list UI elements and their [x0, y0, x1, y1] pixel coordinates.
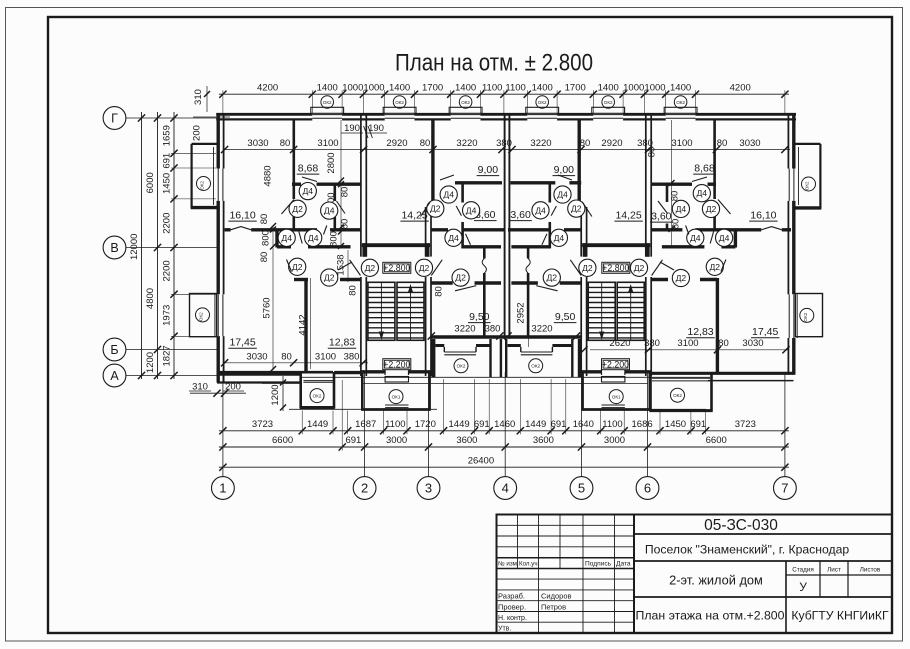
dim 1538 (apt A hall width) [336, 250, 349, 282]
title block outer frame [497, 515, 893, 634]
stairwell 1 right double wall [426, 207, 431, 376]
top dimension chain line [219, 93, 789, 95]
svg-text:80: 80 [259, 214, 270, 225]
svg-text:12,83: 12,83 [687, 326, 713, 338]
svg-text:Д2: Д2 [546, 273, 557, 283]
svg-text:Петров: Петров [541, 602, 566, 611]
window mark ОК2 bottom left-middle [454, 359, 468, 373]
svg-text:Провер.: Провер. [498, 602, 526, 611]
room area 9,00 (apt C) [553, 164, 576, 176]
svg-text:В: В [110, 241, 118, 255]
apt D closet wall [734, 231, 737, 248]
svg-text:+2.800: +2.800 [602, 263, 629, 273]
svg-text:2: 2 [361, 481, 368, 496]
apt B wall H2 [431, 228, 504, 231]
window in top wall (ОК2) [592, 107, 625, 118]
apt B room 9,50 east wall with opening [482, 248, 486, 339]
svg-text:1000: 1000 [342, 83, 363, 94]
window mark ОК2 (top wall) [536, 96, 549, 109]
svg-text:2920: 2920 [386, 138, 407, 149]
stair flight arrows [599, 283, 633, 341]
svg-text:1100: 1100 [505, 83, 525, 94]
lower-right balcony box [795, 294, 822, 337]
elevation box +2.200 stair2 [602, 359, 630, 370]
svg-text:26400: 26400 [468, 455, 494, 466]
apt C wall H2 [508, 228, 581, 231]
porch depth dim 1200 [270, 376, 286, 411]
svg-text:3220: 3220 [454, 324, 475, 335]
svg-text:12000: 12000 [129, 234, 140, 260]
room area 3,60 (apt D) [650, 211, 673, 223]
title block small labels [498, 561, 631, 633]
window in top wall (ОК2) [311, 107, 344, 118]
axis circle А [103, 364, 126, 387]
svg-text:3: 3 [425, 481, 432, 496]
svg-text:Листов: Листов [860, 567, 881, 574]
window in right wall upper (to bay) [789, 169, 794, 201]
door Д2 [536, 269, 560, 291]
stairwell 2 left double wall [581, 207, 586, 376]
svg-text:Д4: Д4 [690, 233, 701, 243]
svg-text:Д4: Д4 [281, 233, 292, 243]
svg-text:У: У [799, 580, 807, 594]
svg-text:2-эт. жилой дом: 2-эт. жилой дом [669, 573, 763, 588]
window mark ОК2 (top wall) [602, 96, 615, 109]
window mark ОК2 (top wall) [459, 96, 472, 109]
top-left bay [191, 144, 218, 209]
window mark ОК2 in top-right bay [802, 177, 816, 191]
svg-text:1720: 1720 [415, 419, 436, 430]
axis circle 5 [570, 477, 593, 500]
svg-text:Стадия: Стадия [792, 567, 813, 574]
apt C wall H4 (top of 9,50) [511, 281, 581, 284]
elevation box +2.800 stair2 [602, 262, 630, 273]
door Д2 [660, 262, 690, 287]
ground line below porches [262, 377, 710, 409]
door Д4 [532, 202, 557, 219]
svg-text:4142: 4142 [298, 314, 309, 335]
axis circle 2 [353, 477, 376, 500]
svg-text:9,50: 9,50 [555, 311, 576, 323]
svg-text:Д4: Д4 [696, 188, 707, 198]
svg-text:Д2: Д2 [292, 262, 303, 272]
window in top wall (ОК2) [526, 107, 559, 118]
left dimension chain column 1 line [173, 112, 175, 379]
window mark ОК1 stair porch [609, 390, 623, 404]
svg-text:3,60: 3,60 [651, 211, 672, 223]
window mark ОК2 left wall lower [196, 308, 210, 322]
window in top wall (ОК2) [664, 107, 697, 118]
axis circle 7 [774, 477, 797, 500]
misc 80 labels [348, 147, 682, 297]
sheet title cell [636, 609, 785, 623]
door Д4 [305, 226, 327, 247]
door Д2 [570, 259, 596, 276]
svg-text:ОК2: ОК2 [676, 100, 685, 105]
svg-text:ОК2: ОК2 [200, 180, 205, 189]
svg-text:3000: 3000 [386, 435, 407, 446]
door Д2 [415, 259, 442, 276]
window mark ОК1 stair porch [389, 390, 403, 404]
svg-text:ОК2: ОК2 [538, 100, 547, 105]
svg-text:05-ЗС-030: 05-ЗС-030 [704, 517, 778, 534]
svg-text:200: 200 [192, 125, 203, 141]
left chain col1 labels [162, 125, 173, 366]
svg-text:1973: 1973 [162, 305, 173, 326]
stage/sheet columns [786, 561, 892, 633]
svg-text:1400: 1400 [670, 83, 691, 94]
svg-text:80: 80 [718, 338, 729, 349]
svg-text:Дата: Дата [616, 561, 631, 568]
bottom dimension chain row 1 line [219, 430, 789, 432]
svg-text:1000: 1000 [623, 83, 644, 94]
apt D partition V2 (bath) [666, 185, 669, 229]
svg-text:Д2: Д2 [365, 263, 376, 273]
apt A wall H1 under room 8,68 [292, 182, 361, 185]
svg-text:3030: 3030 [246, 351, 267, 362]
svg-text:6600: 6600 [272, 435, 293, 446]
apt C wall H1 under room 9,00 [510, 181, 581, 184]
svg-text:Д4: Д4 [324, 206, 335, 216]
window mark ОК2 in top-left bay [197, 177, 211, 191]
svg-text:5: 5 [578, 481, 585, 496]
svg-text:380: 380 [344, 351, 360, 362]
stairwell 1 left double wall (190+190) [361, 114, 366, 377]
apt C partition V2 (bath 3,60) [548, 183, 551, 248]
apt A closet wall [275, 231, 278, 248]
svg-text:1640: 1640 [573, 419, 594, 430]
apt D wall H2 [651, 227, 791, 230]
svg-text:3220: 3220 [531, 324, 552, 335]
svg-text:3100: 3100 [677, 338, 698, 349]
svg-text:3030: 3030 [247, 138, 268, 149]
room area 9,50 (apt C) [554, 311, 577, 323]
svg-text:691: 691 [162, 153, 173, 169]
apt A partition V2 (bath) [333, 185, 336, 229]
svg-text:1: 1 [219, 481, 226, 496]
svg-text:ОК1: ОК1 [612, 394, 621, 399]
top dimension labels [257, 83, 751, 94]
svg-text:Утв.: Утв. [498, 626, 511, 633]
building type cell [669, 573, 763, 588]
apt A wall H2 (hall south wall) [225, 227, 361, 230]
door Д2 [350, 259, 379, 276]
window sill lines (left 9,50 room window) [444, 347, 476, 355]
window in left wall lower ОК2 [215, 294, 223, 336]
right entrance porch with window ОК2 [650, 373, 713, 412]
svg-text:80: 80 [434, 286, 445, 297]
svg-text:1100: 1100 [602, 419, 622, 430]
door Д2 [282, 200, 307, 218]
svg-text:А: А [110, 369, 119, 383]
svg-text:1450: 1450 [665, 419, 686, 430]
svg-text:800: 800 [329, 231, 340, 247]
axis circle 6 [636, 477, 659, 500]
dim 2952 (apt C 9,50 height) [516, 280, 529, 347]
door Д2 [452, 269, 476, 291]
room area 17,45 (apt A) [228, 337, 256, 349]
svg-text:Д4: Д4 [557, 190, 568, 200]
left entrance porch with window ОК2 [300, 372, 335, 409]
svg-text:12,83: 12,83 [329, 337, 355, 349]
svg-text:+2.200: +2.200 [383, 359, 410, 369]
svg-text:1700: 1700 [422, 83, 443, 94]
dim 190 190 labels at stair1 wall [341, 123, 387, 138]
svg-text:Д4: Д4 [535, 205, 546, 215]
apt B wall H4 (top of 9,50) [431, 281, 501, 284]
svg-text:3220: 3220 [530, 138, 551, 149]
dim 4142 (12,83 room height) [298, 278, 311, 369]
svg-text:ОК2: ОК2 [323, 100, 332, 105]
svg-text:80: 80 [420, 138, 431, 149]
svg-text:9,00: 9,00 [554, 164, 575, 176]
svg-text:Д2: Д2 [571, 204, 582, 214]
bottom wall middle sections (axis Б) [431, 335, 582, 339]
svg-text:Д2: Д2 [582, 263, 593, 273]
room area 9,50 (apt B) [468, 311, 491, 323]
svg-text:9,00: 9,00 [478, 164, 499, 176]
window mark ОК2 left porch [310, 389, 324, 403]
svg-text:ОК2: ОК2 [313, 393, 322, 398]
svg-text:3,60: 3,60 [510, 209, 531, 221]
svg-text:380: 380 [496, 138, 512, 149]
top exterior wall (axis Г) segments between windows [216, 114, 796, 119]
wall between apt C small rooms and room 14,25 (right) [578, 120, 581, 207]
svg-text:Д2: Д2 [324, 273, 335, 283]
svg-text:1200: 1200 [145, 352, 156, 373]
svg-text:80: 80 [280, 138, 291, 149]
svg-text:6: 6 [644, 481, 651, 496]
stairwell top wall (landing north wall) [362, 243, 430, 257]
svg-text:1450: 1450 [162, 173, 173, 194]
svg-text:3100: 3100 [317, 138, 338, 149]
stair entrance porch [581, 374, 651, 410]
svg-text:1449: 1449 [307, 419, 328, 430]
stairwell top wall (landing north wall) [582, 243, 650, 257]
svg-text:5760: 5760 [262, 297, 273, 318]
apt A wall H4 (top of 12,83) [294, 278, 361, 281]
left exterior wall (axis 1) [218, 113, 223, 382]
left chain col1 ticks + extensions [170, 114, 216, 379]
axis circle В [103, 236, 126, 259]
svg-text:1687: 1687 [355, 419, 376, 430]
svg-text:2200: 2200 [162, 260, 173, 281]
svg-text:3600: 3600 [533, 435, 554, 446]
svg-text:80: 80 [671, 219, 682, 230]
svg-text:3600: 3600 [456, 435, 477, 446]
door Д2 [421, 200, 444, 217]
elevation box +2.800 stair1 [383, 262, 411, 273]
room area 14,25 (apt C) [614, 210, 642, 222]
svg-text:6600: 6600 [706, 435, 727, 446]
svg-text:Д4: Д4 [676, 204, 687, 214]
small dim 310 at top left [193, 86, 210, 112]
svg-text:691: 691 [690, 419, 706, 430]
project name line [645, 542, 850, 556]
bottom wall right end block [650, 373, 794, 380]
apt A wall H5 [277, 245, 351, 248]
title block divider main vertical [633, 515, 635, 634]
svg-text:80: 80 [670, 191, 681, 202]
apt C wall H5 [511, 245, 550, 248]
svg-text:800: 800 [261, 230, 272, 246]
svg-text:Б: Б [110, 343, 118, 357]
svg-text:ОК2: ОК2 [805, 181, 810, 190]
vertical axis lines 1-7 [223, 372, 785, 477]
svg-text:16,10: 16,10 [229, 210, 255, 222]
svg-text:Д2: Д2 [419, 263, 430, 273]
svg-text:80: 80 [340, 187, 351, 198]
axis circle Г [103, 107, 126, 130]
svg-text:17,45: 17,45 [752, 326, 778, 338]
svg-text:Д2: Д2 [430, 204, 441, 214]
left dimension 12000 [129, 112, 145, 379]
left chain col2 labels [145, 172, 156, 373]
apt B wall H1 under room 9,00 [455, 181, 502, 184]
door Д4 [278, 229, 302, 246]
stair left flight box and treads [588, 282, 615, 340]
svg-text:ОК2: ОК2 [673, 393, 682, 398]
middle facade piers below wall [433, 339, 579, 377]
apt D partition P1 between 8,68 and 16,10 [713, 119, 716, 231]
svg-text:Д2: Д2 [455, 273, 466, 283]
svg-text:План этажа на отм.+2.800: План этажа на отм.+2.800 [636, 609, 785, 623]
svg-text:Д4: Д4 [466, 205, 477, 215]
dims 2800/2000/800 chain (apt A hall) [326, 120, 351, 249]
svg-text:Д4: Д4 [302, 186, 313, 196]
room area 9,00 (apt B) [477, 164, 500, 176]
svg-text:4880: 4880 [263, 165, 274, 186]
door Д2 [706, 258, 726, 275]
door Д4 [321, 201, 345, 219]
window in right wall lower ОК2 [789, 294, 797, 338]
svg-text:1538: 1538 [336, 254, 347, 275]
svg-text:1400: 1400 [532, 83, 553, 94]
dim chain 80/800/5760 (apt A left) [259, 214, 276, 372]
svg-text:№ изм.: № изм. [498, 561, 519, 568]
window mark ОК2 right wall lower [800, 308, 814, 322]
stair bottom landing wall + entrance opening [360, 369, 431, 376]
lower-left balcony box [190, 294, 217, 337]
svg-text:2200: 2200 [162, 213, 173, 234]
window in top wall (ОК2) [383, 107, 416, 118]
title: plan heading [395, 50, 593, 77]
svg-text:380: 380 [485, 324, 501, 335]
svg-text:Д4: Д4 [719, 233, 730, 243]
stair bottom landing wall + entrance opening [581, 369, 652, 376]
stair right flight box and treads [617, 282, 644, 340]
svg-text:80: 80 [717, 138, 728, 149]
room area 3,60 (apt B) [474, 209, 497, 221]
room area 12,83 (apt D) [686, 326, 714, 338]
apt A partition P1 between 16,10 and 8,68 [292, 119, 295, 231]
svg-text:3030: 3030 [739, 138, 760, 149]
svg-text:План на отм. ± 2.800: План на отм. ± 2.800 [395, 50, 593, 77]
stair entrance porch [361, 374, 431, 410]
window mark ОК2 bottom right-middle [529, 359, 543, 373]
svg-text:1449: 1449 [525, 419, 546, 430]
axis circle 1 [212, 477, 235, 500]
apt D wall H4 (top of 12,83) [651, 278, 717, 281]
svg-text:1400: 1400 [598, 83, 619, 94]
svg-text:ОК2: ОК2 [199, 312, 204, 321]
doc number 05-ЗС-030 [704, 517, 778, 534]
door Д2 [321, 262, 352, 286]
svg-text:ОК2: ОК2 [395, 100, 404, 105]
bottom dimension 26400 line [219, 455, 789, 470]
window mark ОК2 (top wall) [674, 96, 687, 109]
svg-text:1400: 1400 [389, 83, 410, 94]
door Д2 [630, 259, 662, 276]
svg-text:3100: 3100 [315, 351, 336, 362]
svg-text:ОК2: ОК2 [604, 100, 613, 105]
bottom dimension chain row 2 line [219, 446, 789, 448]
room area 16,10 (apt D) [749, 210, 777, 222]
svg-text:80: 80 [647, 147, 658, 158]
room area 14,25 (apt B) [400, 210, 428, 222]
door Д4 [299, 177, 317, 200]
svg-text:Д2: Д2 [292, 204, 303, 214]
interior dim row under top wall (3030/80/3100 | 2920/80/3220 | ...) [221, 138, 790, 153]
door Д4 [710, 229, 733, 246]
top-right bay [795, 144, 821, 209]
svg-text:691: 691 [474, 419, 490, 430]
door Д4 [658, 200, 690, 217]
room area 3,60 (apt C) [509, 209, 532, 221]
svg-text:6000: 6000 [145, 172, 156, 193]
svg-text:3723: 3723 [735, 419, 756, 430]
bottom chain row2 labels [272, 435, 727, 446]
door Д4 [554, 175, 572, 203]
window mark ОК2 right porch [671, 388, 685, 402]
svg-text:1100: 1100 [482, 83, 502, 94]
svg-text:3030: 3030 [742, 338, 763, 349]
svg-text:1700: 1700 [565, 83, 586, 94]
door Д4 [686, 226, 704, 247]
svg-text:Д2: Д2 [634, 263, 645, 273]
door Д2 [568, 200, 592, 217]
svg-text:ОК2: ОК2 [457, 364, 466, 369]
svg-text:4800: 4800 [145, 288, 156, 309]
apt D wall P2 (12,83 | 17,45) [716, 278, 719, 374]
apt D hall dim line [669, 120, 675, 246]
window sill lines (right 9,50 room window) [521, 347, 553, 355]
mid-bottom dim row center (3220 380 | 3220) [428, 324, 581, 340]
svg-text:2952: 2952 [516, 302, 527, 323]
svg-text:2620: 2620 [609, 338, 630, 349]
axis circle 3 [417, 477, 440, 500]
svg-text:Лист: Лист [827, 567, 841, 574]
svg-text:Д4: Д4 [308, 233, 319, 243]
door Д2 [702, 200, 730, 218]
bottom wall left end block (17,45 / 12,83 rooms) [217, 373, 361, 383]
svg-text:1449: 1449 [449, 419, 470, 430]
center party wall (380) between axis-4 sections [505, 114, 510, 339]
svg-text:80: 80 [580, 138, 591, 149]
mid-bottom dim row left (3030 80 3100 380) [221, 351, 368, 366]
room area 8,68 (apt A) [297, 163, 320, 175]
bottom chain row1 labels [252, 419, 756, 430]
axis circle 4 [494, 477, 517, 500]
svg-text:190: 190 [344, 123, 360, 134]
svg-text:3100: 3100 [671, 138, 692, 149]
room area 8,68 (apt D) [693, 163, 716, 175]
bottom chain row2 ticks [219, 380, 788, 451]
svg-text:Д2: Д2 [706, 204, 717, 214]
svg-text:ОК1: ОК1 [392, 394, 401, 399]
svg-text:4: 4 [502, 481, 509, 496]
left dimension chain column 2 line [157, 112, 159, 379]
